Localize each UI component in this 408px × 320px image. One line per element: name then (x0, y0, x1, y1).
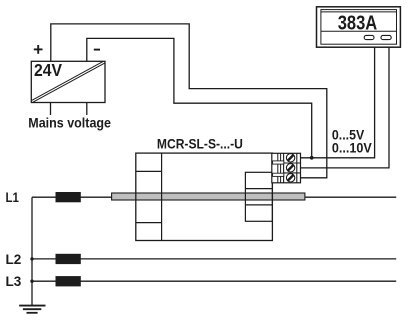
svg-text:L3: L3 (6, 274, 22, 290)
transducer left window (136, 153, 162, 240)
label Mains voltage (28, 115, 111, 130)
node A junction dot (310, 156, 314, 160)
svg-text:L2: L2 (6, 252, 22, 268)
wire L2 phase line (32, 258, 396, 260)
module body white fill (136, 153, 273, 240)
node L3 junction (30, 280, 33, 283)
terminal clamp 2 (273, 173, 284, 176)
terminal screw 1 (286, 154, 294, 162)
svg-text:0...10V: 0...10V (332, 141, 372, 156)
svg-text:24V: 24V (34, 60, 62, 80)
terminal screw 3 (286, 174, 294, 182)
svg-text:383A: 383A (338, 12, 378, 34)
label L2 (6, 252, 22, 268)
wire L3 phase line (32, 280, 396, 282)
transducer U1 MCR-SL-S-...-U body (136, 153, 273, 240)
label L1 (6, 190, 19, 206)
wire L1 phase line (32, 196, 396, 198)
wire terminal 2 to meter right lead (301, 47, 390, 168)
meter button 2 (381, 35, 391, 39)
label MCR-SL-S-...-U (157, 136, 243, 151)
wire supply bottom leads (51, 103, 87, 116)
wire earth vertical (31, 197, 33, 305)
transducer right window (245, 172, 272, 221)
fuse F1 (56, 192, 81, 202)
meter P1 383A (317, 7, 401, 47)
label 0...10V (332, 141, 372, 156)
svg-text:L1: L1 (6, 190, 19, 206)
label minus (94, 49, 100, 51)
wire supply plus to terminal 3 (51, 24, 327, 178)
label plus (34, 45, 43, 54)
terminal block X1 (272, 153, 301, 183)
label 24V (34, 60, 62, 80)
node L2 junction (30, 257, 33, 260)
terminal clamp 1 (273, 161, 284, 164)
fuse F3 (56, 276, 81, 286)
svg-text:Mains voltage: Mains voltage (28, 115, 111, 130)
label 383A (338, 12, 378, 34)
wire terminal 1 to meter left lead (301, 47, 375, 158)
wire supply minus to node A (87, 38, 312, 157)
svg-text:MCR-SL-S-...-U: MCR-SL-S-...-U (157, 136, 243, 151)
label L3 (6, 274, 22, 290)
label 0...5V (332, 128, 364, 143)
fuse F2 (56, 254, 81, 264)
terminal screw 2 (286, 164, 294, 172)
meter button 1 (364, 35, 374, 39)
primary conductor bus bar (112, 193, 305, 200)
ground (19, 306, 45, 313)
power supply T1 24V box (31, 61, 105, 102)
